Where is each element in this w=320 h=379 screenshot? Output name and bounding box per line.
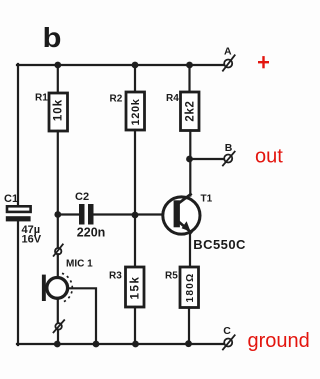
- svg-text:15k: 15k: [130, 276, 142, 300]
- wire C2 right to transistor base: [94, 213, 174, 215]
- capacitor C2: [75, 191, 105, 240]
- svg-text:R3: R3: [109, 271, 122, 282]
- svg-text:MIC 1: MIC 1: [66, 259, 93, 270]
- resistor R5: [165, 267, 199, 308]
- resistor R2: [110, 92, 145, 130]
- wire R4 bottom to collector: [189, 131, 191, 196]
- svg-text:C1: C1: [4, 193, 18, 205]
- wire R2 top lead: [134, 65, 136, 92]
- svg-text:R5: R5: [165, 271, 178, 282]
- svg-text:B: B: [225, 142, 233, 154]
- svg-text:16V: 16V: [22, 234, 42, 246]
- wire R1 bottom to mic plug: [57, 131, 59, 248]
- wire bottom rail: [17, 343, 224, 345]
- wire top rail: [17, 64, 224, 66]
- svg-text:120k: 120k: [130, 98, 142, 125]
- connector plug above MIC 1: [54, 244, 63, 256]
- terminal B: [223, 142, 235, 165]
- svg-text:C: C: [223, 325, 231, 337]
- node junction bottom rail at R3 column: [132, 341, 139, 348]
- node junction bottom rail at mic case wire: [93, 341, 100, 348]
- capacitor C1: [4, 193, 42, 246]
- label plus: [258, 56, 269, 68]
- wire C2 left lead: [58, 213, 79, 215]
- svg-text:BC550C: BC550C: [193, 237, 246, 252]
- svg-text:out: out: [255, 146, 283, 168]
- svg-text:R2: R2: [110, 94, 123, 105]
- transistor T1: [163, 194, 246, 253]
- svg-text:ground: ground: [248, 330, 310, 352]
- microphone MIC 1: [42, 254, 93, 323]
- terminal A: [223, 46, 235, 71]
- wire out stub: [190, 158, 224, 160]
- resistor R3: [109, 267, 144, 307]
- wire R2 bottom to R3 top: [134, 130, 136, 267]
- svg-text:T1: T1: [201, 194, 213, 205]
- node junction bottom rail at mic column: [54, 341, 61, 348]
- node junction top rail at R2 column: [132, 62, 139, 69]
- wire emitter to R5: [189, 232, 191, 268]
- connector plug below MIC 1: [54, 320, 65, 332]
- wire mic case to ground: [69, 288, 96, 344]
- node junction top rail at R1 column: [54, 62, 61, 69]
- wire R4 top lead: [188, 65, 190, 92]
- svg-text:A: A: [224, 46, 232, 58]
- svg-text:2k2: 2k2: [185, 100, 197, 121]
- node junction out tap: [186, 156, 193, 163]
- wire left rail upper: [17, 64, 19, 206]
- resistor R1: [35, 93, 68, 132]
- wire R5 bottom lead: [188, 308, 190, 345]
- svg-text:220n: 220n: [77, 226, 106, 240]
- node junction base wire at R2 column: [132, 212, 139, 219]
- svg-text:b: b: [43, 22, 62, 53]
- svg-text:C2: C2: [75, 191, 89, 203]
- svg-text:180Ω: 180Ω: [185, 273, 196, 303]
- node junction bottom rail at R5 column: [185, 340, 192, 347]
- wire R3 bottom lead: [134, 307, 136, 344]
- wire R1 top lead: [57, 65, 59, 93]
- wire mic plug to bottom rail: [57, 330, 59, 344]
- resistor R4: [166, 92, 199, 131]
- svg-text:R4: R4: [166, 93, 179, 104]
- node junction top rail at R4 column: [186, 62, 193, 69]
- svg-text:R1: R1: [35, 93, 48, 104]
- svg-text:10k: 10k: [53, 99, 65, 121]
- wire left rail lower: [17, 221, 19, 345]
- terminal C: [223, 325, 235, 349]
- node junction C2 tap on mic column: [54, 211, 61, 218]
